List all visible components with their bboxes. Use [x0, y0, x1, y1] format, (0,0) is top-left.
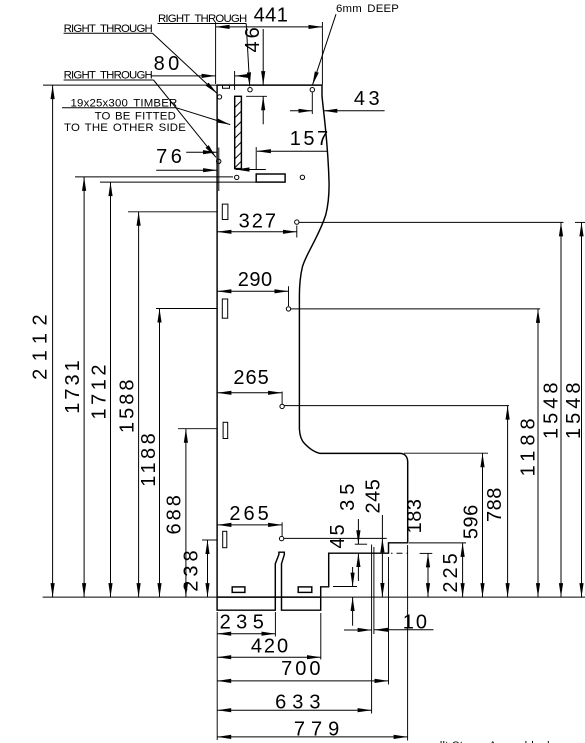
- underline, label RIGHT THROUGH 2: [64, 32, 153, 34]
- reference line for dim 46: [246, 95, 267, 97]
- extension line from hole H7 to right (1548): [299, 221, 563, 223]
- dimension line 327: [217, 231, 296, 233]
- dimension line 235: [217, 633, 275, 635]
- dimension line 238: [207, 540, 209, 597]
- svg-text:10: 10: [403, 612, 429, 634]
- svg-text:19x25x300 TIMBER: 19x25x300 TIMBER: [71, 97, 178, 109]
- notch on top edge: [223, 85, 230, 88]
- svg-text:1588: 1588: [116, 377, 138, 434]
- dimension line 10 left arrow: [344, 629, 372, 631]
- svg-text:1188: 1188: [138, 430, 160, 487]
- dimension line 76 upper arrow: [186, 151, 217, 153]
- dimension line 35 upper arrow: [357, 519, 359, 544]
- dimension line 43 right arrow: [323, 110, 384, 112]
- hole H6: [300, 175, 304, 179]
- leader to timber: [176, 108, 230, 125]
- svg-text:1712: 1712: [89, 361, 111, 420]
- extension line from small step (45): [333, 586, 357, 588]
- dimension line 633: [217, 709, 371, 711]
- svg-text:183: 183: [404, 498, 426, 533]
- svg-text:45: 45: [327, 522, 349, 548]
- extension line to slot S3 (688): [178, 428, 217, 430]
- extension line for dim 700: [388, 557, 390, 685]
- dimension line 43 left arrow: [290, 110, 312, 112]
- svg-text:441: 441: [254, 5, 289, 27]
- underline, label RIGHT THROUGH 3: [64, 79, 154, 81]
- svg-text:RIGHT THROUGH: RIGHT THROUGH: [64, 70, 153, 82]
- extension line from step top (596): [404, 452, 488, 454]
- dimension line 45 upper arrow: [352, 567, 354, 587]
- dimension line 420: [217, 656, 321, 658]
- slot S2 on left edge: [222, 299, 227, 318]
- dimension line 76 right arrow: [236, 169, 266, 171]
- dimension line 779: [217, 736, 407, 738]
- extension line to slot S2 (1188 left): [156, 308, 217, 310]
- bar below timber: [256, 174, 285, 182]
- svg-text:265: 265: [229, 503, 271, 525]
- extension line for dim 235, stem edge: [274, 612, 276, 637]
- extension line to bar bottom (1712): [100, 181, 256, 183]
- leader to hole H2: [246, 24, 250, 87]
- extension line, timber left edge (80): [234, 71, 236, 90]
- svg-text:700: 700: [281, 658, 323, 680]
- svg-text:46: 46: [242, 24, 264, 52]
- extension line to slot S4 (238): [202, 539, 217, 541]
- reference line for dim 35: [355, 543, 367, 545]
- dimension line 688: [185, 429, 187, 597]
- dimension line 265 upper: [217, 392, 282, 394]
- extension line, right top corner (441): [321, 22, 323, 85]
- svg-text:596: 596: [460, 504, 482, 539]
- svg-text:80: 80: [154, 53, 183, 75]
- dimension line 700: [217, 680, 388, 682]
- extension line, top edge datum: [43, 84, 217, 86]
- leader to hole H4: [154, 80, 216, 157]
- svg-text:225: 225: [440, 550, 462, 592]
- panel outline: [217, 85, 408, 610]
- extension line for dim 10: [373, 547, 375, 634]
- dimension line 46 upper arrow: [262, 29, 264, 85]
- extension line from upper step (225): [409, 542, 466, 544]
- svg-text:290: 290: [238, 269, 273, 291]
- extension tick from lower step (183): [420, 552, 433, 554]
- dimension line 80 left arrow: [151, 75, 216, 77]
- dimension line 265 lower: [217, 524, 282, 526]
- rectangular cutout R2: [298, 587, 312, 593]
- svg-text:688: 688: [164, 492, 186, 534]
- svg-text:235: 235: [220, 612, 270, 634]
- extension line above hole H9 (265): [281, 392, 283, 405]
- hole H4: [217, 159, 221, 163]
- dimension line 788: [507, 406, 509, 597]
- hole H7: [295, 220, 299, 224]
- svg-text:788: 788: [484, 487, 506, 522]
- extension line above hole H8 (290): [288, 286, 290, 306]
- slot S4 on left edge: [223, 531, 227, 547]
- extension line to slot S1 (1588): [128, 211, 217, 213]
- extension line from hole H4: [218, 148, 220, 192]
- dimension line 45 lower arrow: [352, 597, 354, 626]
- underline, label TIMBER: [62, 107, 176, 109]
- extension line from hole H9 to right (788): [284, 405, 509, 407]
- svg-text:35: 35: [337, 479, 359, 511]
- svg-text:265: 265: [233, 367, 269, 389]
- extension line above hole H10 (265): [281, 522, 283, 536]
- dimension line 290: [217, 290, 288, 292]
- extension line from hole H8 to right (1188): [291, 308, 540, 310]
- dimension line 1588: [138, 212, 140, 597]
- dimension line 76 left arrow: [156, 169, 217, 171]
- bottom datum line: [43, 596, 585, 598]
- svg-text:245: 245: [362, 479, 384, 514]
- dimension line 596: [482, 453, 484, 597]
- svg-text:157: 157: [290, 128, 331, 150]
- svg-text:1188: 1188: [518, 413, 540, 476]
- extension line for dim 420, tab edge: [320, 613, 322, 660]
- dimension line 183: [427, 553, 429, 597]
- svg-text:43: 43: [354, 88, 383, 110]
- hole H9: [280, 404, 284, 408]
- leader from 6mm DEEP to hole H3: [312, 14, 336, 85]
- slot S3 on left edge: [223, 422, 228, 438]
- dimension line 1548 outer: [581, 222, 583, 597]
- dimension line 1731: [83, 177, 85, 597]
- hole H5: [235, 175, 239, 179]
- dimension line 1188 left: [159, 309, 161, 598]
- hidden/centre dash line right of lower step: [391, 552, 408, 554]
- svg-text:RIGHT THROUGH: RIGHT THROUGH: [158, 13, 247, 25]
- svg-text:420: 420: [251, 636, 290, 658]
- dimension line 80 right arrow: [235, 75, 249, 77]
- dimension line 441: [216, 26, 323, 28]
- dimension line 46 lower arrow: [262, 96, 264, 124]
- svg-text:633: 633: [275, 692, 326, 714]
- svg-text:2112: 2112: [30, 307, 52, 380]
- hole H1: [217, 95, 221, 99]
- extension line below hole H7 (327): [296, 226, 298, 238]
- svg-text:TO THE OTHER SIDE: TO THE OTHER SIDE: [64, 122, 186, 134]
- hole H8: [286, 307, 290, 311]
- dimension line 35 lower arrow: [357, 553, 359, 581]
- svg-text:1731: 1731: [62, 357, 84, 414]
- extension line from hole H10 to right (245/35): [284, 537, 387, 539]
- extension line from hole H3 (43): [311, 93, 313, 115]
- hole H10: [279, 536, 283, 540]
- svg-text:TO BE FITTED: TO BE FITTED: [95, 111, 176, 123]
- dimension line 1548 inner: [560, 222, 562, 597]
- extension line for dim 779, right edge: [407, 545, 409, 741]
- timber (hatched): [235, 96, 242, 168]
- svg-text:779: 779: [294, 719, 345, 741]
- svg-text:1548: 1548: [540, 378, 562, 439]
- dimension line 1712: [110, 182, 112, 597]
- leader to hole H1: [153, 33, 218, 93]
- dimension line 225: [462, 543, 464, 597]
- rectangular cutout R1: [232, 587, 245, 593]
- underline, label RIGHT THROUGH 1: [158, 23, 247, 25]
- slot S1 on left edge: [222, 204, 228, 219]
- svg-text:238: 238: [181, 546, 203, 591]
- bend line across bottom tab: [217, 596, 321, 598]
- dimension line 245: [381, 538, 383, 597]
- extension line for dims 633/10: [371, 545, 373, 714]
- svg-text:6mm DEEP: 6mm DEEP: [336, 3, 399, 15]
- svg-text:327: 327: [239, 211, 278, 233]
- dimension line 245 shaft: [381, 515, 383, 538]
- hole H3 (6mm deep): [310, 88, 314, 92]
- svg-text:RIGHT THROUGH: RIGHT THROUGH: [64, 23, 153, 35]
- extension line to hole H5 (1731): [75, 176, 233, 178]
- dimension line 1188 right: [537, 309, 539, 597]
- extension line tick at far right (1548): [575, 221, 585, 223]
- extension line, bar left edge (157): [255, 147, 257, 170]
- svg-text:1548: 1548: [563, 378, 585, 439]
- dimension line 2112: [52, 85, 54, 597]
- extension line, left edge (441/80): [215, 22, 217, 84]
- extension line, left edge bottom dims: [216, 612, 218, 740]
- dimension line 10 right arrow: [374, 629, 433, 631]
- hole H2: [248, 88, 252, 92]
- svg-text:76: 76: [156, 146, 185, 168]
- dimension line 157: [257, 150, 328, 152]
